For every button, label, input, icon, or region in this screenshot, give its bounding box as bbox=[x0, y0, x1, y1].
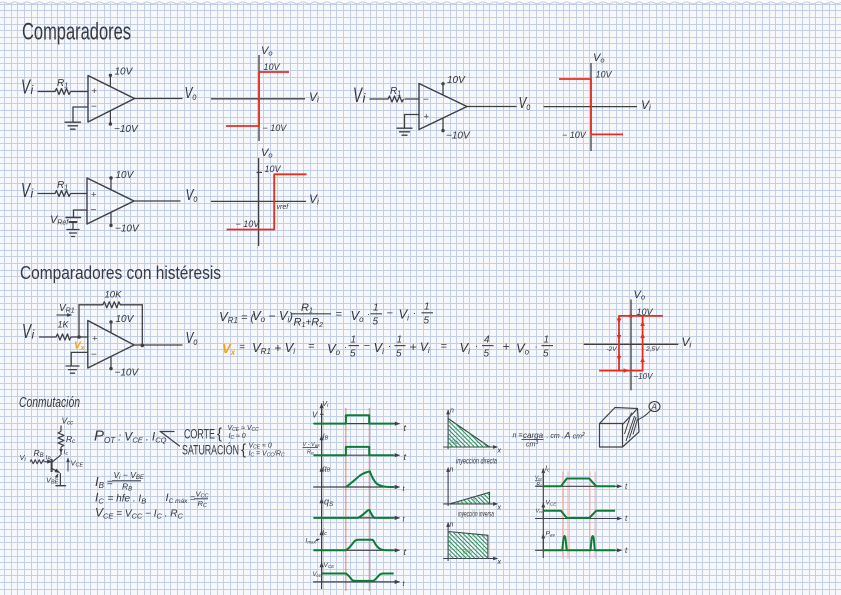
plot qS axes bbox=[313, 497, 405, 524]
graph3 -10V label bbox=[236, 219, 261, 229]
svg-text:nc: nc bbox=[473, 497, 478, 503]
svg-text:5: 5 bbox=[373, 317, 379, 328]
svg-text:Rc: Rc bbox=[537, 482, 543, 488]
graph3 vref label bbox=[277, 204, 290, 211]
pink guide pair t2 bbox=[590, 472, 595, 559]
wire R1 to op-amp bbox=[71, 336, 88, 338]
svg-text:x: x bbox=[497, 448, 502, 455]
svg-text:·: · bbox=[475, 341, 478, 351]
wire R1 to op-amp bbox=[71, 91, 88, 93]
svg-text:{: { bbox=[241, 442, 246, 459]
svg-text:VCE ≈ VCC: VCE ≈ VCC bbox=[228, 425, 260, 433]
svg-text:Vcc: Vcc bbox=[313, 572, 322, 578]
svg-text:−10V: −10V bbox=[634, 372, 654, 381]
op-amp U2 bbox=[419, 84, 467, 130]
svg-text:RB: RB bbox=[307, 450, 314, 456]
svg-text:-2V: -2V bbox=[607, 346, 618, 353]
svg-text:carga: carga bbox=[523, 431, 544, 440]
hysteresis -2V label bbox=[607, 346, 618, 353]
graph1 -10V label bbox=[263, 123, 288, 133]
hysteresis -10V label bbox=[634, 372, 654, 381]
equation VCE bbox=[95, 506, 184, 521]
waveform qS bump bbox=[314, 510, 394, 518]
hysteresis red loop bbox=[599, 316, 663, 371]
ground bbox=[67, 230, 79, 237]
equation IC bbox=[95, 490, 208, 510]
svg-text:inyección directa: inyección directa bbox=[456, 457, 497, 466]
svg-text:. cm .: . cm . bbox=[547, 433, 564, 440]
CORTE conditions bbox=[184, 425, 259, 443]
svg-text:·: · bbox=[535, 342, 538, 352]
axis spine right column bbox=[542, 469, 544, 558]
resistor R1 bbox=[55, 180, 71, 197]
svg-text:CORTE: CORTE bbox=[184, 427, 215, 442]
svg-text:10V: 10V bbox=[447, 75, 466, 86]
hysteresis 2,5V label bbox=[645, 346, 660, 353]
svg-text:− 10V: − 10V bbox=[263, 123, 288, 133]
svg-text:1: 1 bbox=[544, 335, 550, 346]
svg-text:−: − bbox=[423, 95, 429, 106]
svg-text:5: 5 bbox=[543, 349, 549, 360]
waveform ic curve bbox=[314, 540, 394, 551]
svg-text:=: = bbox=[336, 309, 343, 321]
svg-text:SATURACIÓN: SATURACIÓN bbox=[182, 443, 239, 458]
svg-text:x: x bbox=[497, 505, 502, 512]
svg-text:−: − bbox=[91, 102, 97, 113]
chart inyeccion directa axes bbox=[443, 408, 501, 455]
node Vx junction bbox=[74, 335, 86, 352]
svg-text:−: − bbox=[387, 308, 394, 320]
node Vi input label bbox=[21, 180, 34, 202]
wire non-inverting input to ground bbox=[405, 115, 420, 128]
chart saturation charge axes bbox=[443, 522, 501, 567]
svg-text:R1+R2: R1+R2 bbox=[294, 317, 324, 330]
resistor R1 1K label bbox=[58, 320, 70, 330]
wire R1 to op-amp bbox=[405, 98, 419, 100]
svg-text:VCE ≈ 0: VCE ≈ 0 bbox=[249, 443, 272, 451]
SECTION: Comparadores con histeresis title bbox=[20, 263, 221, 283]
axis spine middle column bbox=[321, 405, 323, 589]
svg-text:+: + bbox=[92, 86, 98, 97]
equation Pot bbox=[94, 428, 167, 446]
svg-text:n: n bbox=[450, 467, 454, 474]
hysteresis 10V label bbox=[637, 307, 654, 317]
waveform qB charge curve bbox=[346, 472, 394, 488]
svg-text:·: · bbox=[344, 342, 347, 352]
caption inyeccion directa bbox=[456, 457, 497, 466]
svg-text:4: 4 bbox=[484, 335, 490, 346]
VCE arrow bbox=[68, 458, 83, 472]
node Vi input label bbox=[22, 321, 35, 343]
svg-text:1: 1 bbox=[351, 335, 357, 346]
wire feedback to output bbox=[120, 305, 142, 346]
graph1 10V label bbox=[264, 62, 281, 72]
graph3 10V tick and label bbox=[257, 164, 282, 174]
svg-text:·: · bbox=[413, 308, 416, 318]
svg-text:−: − bbox=[364, 340, 371, 352]
graph2 -10V label bbox=[562, 130, 587, 140]
wire inverting input to ground bbox=[73, 107, 88, 122]
svg-text:IC = VCC/RC: IC = VCC/RC bbox=[249, 451, 285, 459]
battery VRef bbox=[50, 214, 81, 229]
waveform VCE curve bbox=[322, 574, 394, 581]
plot Ic axes bbox=[535, 464, 628, 492]
svg-text:IB: IB bbox=[46, 455, 52, 463]
+10V supply bbox=[109, 170, 134, 190]
svg-text:5: 5 bbox=[350, 349, 356, 360]
svg-text:=: = bbox=[239, 342, 245, 353]
SECTION: Conmutacion title bbox=[19, 394, 80, 411]
svg-text:+ Vi: + Vi bbox=[410, 340, 430, 355]
svg-text:IC ≈ 0: IC ≈ 0 bbox=[229, 433, 246, 441]
waveform VCE trapezoid inverted bbox=[543, 511, 615, 518]
node output junction bbox=[141, 344, 145, 348]
svg-text:−10V: −10V bbox=[115, 368, 140, 379]
graph1 Vo axis bbox=[259, 45, 273, 141]
pink guide pair t1 bbox=[563, 472, 568, 559]
svg-text:vref: vref bbox=[277, 204, 290, 211]
equation VR1 bbox=[219, 302, 433, 330]
graph3 Vo axis bbox=[259, 147, 273, 246]
+10V supply bbox=[109, 67, 134, 87]
plot VCE axes bbox=[313, 562, 406, 588]
svg-text:=: = bbox=[308, 341, 315, 353]
svg-text:+: + bbox=[91, 190, 97, 201]
hysteresis Vi axis bbox=[584, 335, 692, 350]
trapezoid qBS hatched bbox=[417, 531, 519, 560]
svg-text:10V: 10V bbox=[115, 67, 134, 78]
svg-text:n: n bbox=[450, 522, 454, 529]
wire inverting input to VRef bbox=[74, 210, 88, 217]
resistor RB bbox=[30, 448, 44, 464]
svg-text:10V: 10V bbox=[264, 62, 281, 72]
svg-text:10V: 10V bbox=[116, 170, 135, 181]
ground bbox=[397, 128, 412, 135]
equation Vx bbox=[222, 335, 553, 360]
svg-text:1: 1 bbox=[397, 335, 403, 346]
-10V supply bbox=[109, 356, 139, 378]
node Vi input label bbox=[21, 77, 34, 99]
ground bbox=[66, 366, 79, 373]
op-amp U4 bbox=[88, 321, 134, 369]
svg-text:5: 5 bbox=[484, 349, 490, 360]
wire feedback up from node bbox=[79, 305, 103, 337]
-10V supply bbox=[109, 212, 140, 234]
svg-text:i: i bbox=[31, 187, 34, 201]
svg-text:Vcc: Vcc bbox=[536, 509, 544, 515]
SECTION: Comparadores title bbox=[22, 19, 131, 46]
graph2 Vi axis bbox=[544, 98, 651, 113]
svg-text:+: + bbox=[92, 334, 98, 345]
waveform IB pulse bbox=[314, 447, 394, 455]
svg-text:1: 1 bbox=[373, 303, 379, 314]
svg-text:VR1 + Vi: VR1 + Vi bbox=[252, 340, 295, 356]
plot IB axes bbox=[303, 432, 407, 463]
graph3 red transfer curve bbox=[227, 174, 307, 229]
svg-text:Vo − Vi): Vo − Vi) bbox=[252, 308, 293, 324]
wire Vi to R1 bbox=[40, 336, 57, 338]
plot ic axes bbox=[306, 527, 407, 557]
svg-text:−10V: −10V bbox=[446, 131, 471, 142]
wire output bbox=[135, 98, 183, 100]
node Vo output label bbox=[519, 95, 531, 113]
svg-text:=: = bbox=[441, 341, 448, 353]
plot qB axes bbox=[313, 464, 405, 494]
waveform Pav power spikes bbox=[543, 536, 615, 550]
svg-text:{: { bbox=[217, 426, 222, 443]
-10V supply bbox=[441, 118, 471, 142]
resistor R1 bbox=[56, 334, 71, 340]
svg-text:i: i bbox=[32, 328, 35, 342]
graph1 red transfer curve bbox=[226, 72, 289, 126]
wire inverting input to ground bbox=[71, 352, 88, 365]
wire output bbox=[134, 344, 182, 346]
VR1 label with arrow bbox=[57, 303, 75, 315]
svg-text:+: + bbox=[503, 340, 510, 354]
resistor Rc bbox=[58, 431, 75, 447]
SATURACION conditions bbox=[182, 442, 285, 459]
svg-text:1: 1 bbox=[424, 302, 430, 313]
svg-text:10V: 10V bbox=[116, 314, 135, 325]
ground bbox=[65, 122, 81, 129]
graph2 Vo axis bbox=[591, 52, 605, 151]
triangle inverse injection hatched bbox=[434, 492, 503, 505]
waveform Ic trapezoid bbox=[543, 479, 615, 487]
cube body bbox=[600, 408, 640, 448]
svg-text:10K: 10K bbox=[105, 290, 123, 301]
formula n = carga/cm3 . cm . A cm2 bbox=[513, 431, 586, 449]
resistor R2 10K bbox=[103, 290, 122, 308]
svg-text:Conmutación: Conmutación bbox=[19, 394, 80, 411]
node Vo output label bbox=[185, 85, 197, 103]
transistor Q1 bbox=[52, 455, 61, 472]
waveform Vi pulse bbox=[314, 415, 394, 423]
resistor R1 bbox=[55, 78, 71, 95]
-10V supply bbox=[109, 110, 139, 135]
wire RB to base with IB arrow bbox=[45, 455, 52, 463]
svg-text:− 10V: − 10V bbox=[562, 130, 587, 140]
brace fork bbox=[160, 432, 180, 447]
wire R1 to op-amp bbox=[71, 193, 87, 195]
svg-text:2,5V: 2,5V bbox=[645, 346, 660, 353]
op-amp U3 bbox=[87, 178, 134, 224]
svg-text:n: n bbox=[450, 408, 454, 415]
wire Vi to R1 bbox=[38, 193, 55, 195]
wire Vi to R1 bbox=[370, 98, 388, 100]
wire output bbox=[134, 200, 180, 202]
graph2 10V label bbox=[596, 70, 613, 80]
caption inyeccion inversa bbox=[458, 510, 494, 519]
wire emitter to ground bbox=[56, 473, 66, 486]
svg-text:VCE: VCE bbox=[324, 562, 336, 569]
svg-text:qB: qB bbox=[452, 439, 458, 445]
svg-text:− 10V: − 10V bbox=[236, 219, 261, 229]
node Vcc label bbox=[62, 416, 74, 427]
label A with circle bbox=[639, 402, 661, 420]
chart inyeccion inversa axes bbox=[443, 467, 501, 512]
hysteresis Vo axis bbox=[631, 289, 645, 390]
red guide line t1 bbox=[345, 408, 347, 591]
svg-text:−: − bbox=[91, 205, 97, 216]
svg-text:n =: n = bbox=[513, 433, 523, 440]
graph2 red transfer curve bbox=[559, 79, 623, 134]
op-amp U1 bbox=[88, 76, 135, 123]
svg-text:10V: 10V bbox=[596, 70, 613, 80]
svg-text:10V: 10V bbox=[265, 164, 282, 174]
graph1 Vi axis bbox=[211, 90, 319, 105]
wire Vi to R1 bbox=[38, 91, 55, 93]
svg-text:·: · bbox=[367, 309, 370, 319]
plot Vi axes bbox=[312, 399, 407, 433]
equation IB bbox=[95, 470, 145, 493]
svg-text:Comparadores: Comparadores bbox=[22, 19, 131, 46]
svg-text:Comparadores con histéresis: Comparadores con histéresis bbox=[20, 263, 221, 283]
svg-text:Ic: Ic bbox=[64, 449, 69, 457]
+10V supply bbox=[441, 75, 466, 95]
wire Rc to collector with Ic arrow bbox=[61, 447, 68, 457]
wire Vcc to Rc bbox=[60, 426, 62, 432]
svg-text:−10V: −10V bbox=[115, 224, 140, 235]
VBE label with arrow bbox=[46, 474, 59, 486]
triangle qB direct injection hatched bbox=[415, 418, 522, 448]
svg-text:5: 5 bbox=[396, 349, 402, 360]
svg-text:inyección inversa: inyección inversa bbox=[458, 510, 494, 519]
node Vo output label bbox=[186, 187, 198, 205]
svg-text:5: 5 bbox=[424, 316, 430, 327]
svg-text:1K: 1K bbox=[58, 320, 70, 330]
svg-text:qBS: qBS bbox=[463, 549, 472, 555]
svg-text:10V: 10V bbox=[637, 307, 654, 317]
node Vi input label bbox=[353, 84, 367, 107]
wire output bbox=[467, 106, 516, 108]
svg-text:−10V: −10V bbox=[114, 124, 139, 135]
graph3 Vi axis bbox=[211, 192, 319, 207]
plot Pav axes bbox=[535, 531, 628, 556]
svg-text:·: · bbox=[388, 341, 391, 351]
svg-text:−: − bbox=[91, 350, 97, 361]
svg-text:VR1 = (: VR1 = ( bbox=[219, 309, 255, 325]
red guide line t2 bbox=[368, 408, 370, 591]
resistor R1 bbox=[388, 86, 404, 102]
svg-text:Imax: Imax bbox=[306, 538, 317, 545]
node Vo output label bbox=[186, 330, 198, 348]
svg-text:+: + bbox=[424, 112, 430, 123]
svg-text:A: A bbox=[651, 403, 657, 412]
svg-text:i: i bbox=[31, 83, 34, 97]
svg-text:x: x bbox=[497, 559, 502, 566]
node Vi label bbox=[20, 453, 27, 463]
svg-text:V: V bbox=[312, 411, 318, 420]
+10V supply bbox=[109, 314, 134, 333]
plot VCE axes bbox=[535, 500, 628, 524]
